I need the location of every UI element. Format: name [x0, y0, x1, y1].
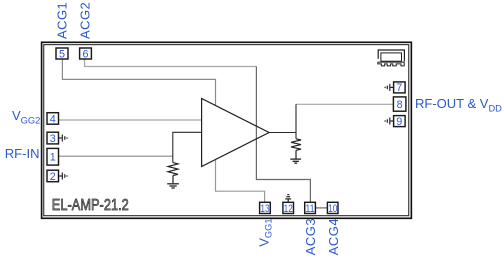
svg-text:5: 5: [59, 48, 65, 60]
svg-text:2: 2: [50, 171, 56, 183]
svg-text:12: 12: [284, 203, 293, 215]
svg-text:9: 9: [396, 116, 402, 128]
svg-text:VGG1: VGG1: [256, 218, 273, 246]
svg-text:1: 1: [50, 152, 56, 164]
svg-text:ACG4: ACG4: [326, 218, 341, 255]
svg-text:ACG3: ACG3: [303, 218, 318, 255]
svg-text:3: 3: [50, 133, 56, 145]
svg-text:ACG1: ACG1: [54, 2, 69, 39]
svg-text:8: 8: [397, 99, 403, 111]
svg-text:13: 13: [260, 203, 269, 215]
svg-text:11: 11: [305, 203, 314, 215]
svg-text:VGG2: VGG2: [12, 108, 40, 126]
svg-text:4: 4: [50, 113, 56, 125]
svg-text:RF-OUT & VDD: RF-OUT & VDD: [415, 96, 502, 113]
svg-text:EL-AMP-21.2: EL-AMP-21.2: [52, 197, 129, 214]
svg-text:ACG2: ACG2: [77, 2, 92, 39]
svg-text:10: 10: [328, 203, 337, 215]
svg-text:6: 6: [82, 48, 88, 60]
svg-text:7: 7: [396, 82, 402, 94]
svg-text:RF-IN: RF-IN: [5, 146, 40, 161]
